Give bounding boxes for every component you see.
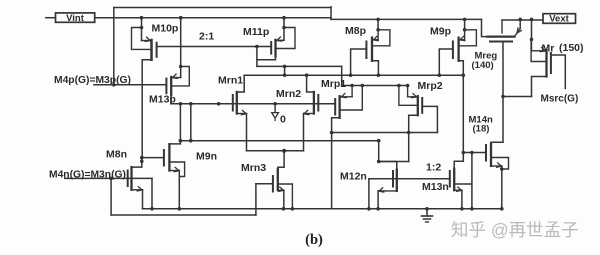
svg-text:(150): (150) xyxy=(559,42,584,54)
wire M4n gate wire through M8n to bulk drop xyxy=(65,177,152,179)
wire L2 Mrp drain line y132.5 xyxy=(332,132,438,134)
svg-text:(18): (18) xyxy=(473,124,490,135)
wire L1 end down to M12n drain xyxy=(378,141,380,162)
transistor M12n xyxy=(396,170,398,191)
wire vertical A x463.3 (y75 down to M13n drain) xyxy=(462,75,464,161)
wire right end of top rails x331 xyxy=(330,7,332,20)
wire Vint rail y18 (box to x331) xyxy=(95,17,331,19)
wire M11p drain jog to y66 wire xyxy=(257,65,342,67)
wire M8p gate down to y75 xyxy=(351,49,367,75)
svg-text:M9p: M9p xyxy=(430,26,451,38)
wire bias drop x111.1 xyxy=(110,178,112,215)
wire M9n drain jog from x180.4 xyxy=(169,141,180,144)
svg-text:Mrp1: Mrp1 xyxy=(321,78,346,90)
wire M8p source riser xyxy=(377,19,379,29)
svg-text:Mrn1: Mrn1 xyxy=(218,75,243,87)
wire M10p source riser xyxy=(141,18,143,41)
wire Mrn1 source xyxy=(237,113,247,115)
svg-text:2:1: 2:1 xyxy=(199,31,214,43)
wire Mrp2 bulk tie xyxy=(399,86,418,106)
wire drain node line y75 (Mrn1 to M14n gate) xyxy=(244,74,463,76)
wire Mrp1 source arrow xyxy=(351,86,353,97)
svg-text:Vint: Vint xyxy=(66,13,85,24)
transistor M9n xyxy=(168,144,170,170)
wire M14n drain to Msrc vertical xyxy=(491,142,503,144)
transistor M11p xyxy=(274,40,276,57)
wire Mrn3 source xyxy=(278,189,284,191)
wire M10p drain xyxy=(142,60,151,162)
wire M10p source arrow xyxy=(142,40,151,42)
svg-text:Vext: Vext xyxy=(549,14,569,25)
wire M13n bulk tie to B xyxy=(454,183,472,185)
transistor Mrn3 xyxy=(277,169,279,190)
wire bias line y215 to Mrn3 gate xyxy=(111,214,256,216)
wire M14n source xyxy=(491,165,502,167)
wire Mrn2 source xyxy=(304,113,314,115)
transistor Mr xyxy=(545,50,547,77)
wire M12n/M13n shared gate line xyxy=(369,178,450,180)
wire Mrn3 gate lead xyxy=(256,183,273,185)
svg-text:0: 0 xyxy=(280,114,286,126)
wire M13p source arrow xyxy=(172,77,181,79)
svg-text:(140): (140) xyxy=(472,60,494,71)
wire Mr source riser xyxy=(531,19,533,39)
wire Msrc node horizontal to Mr drain line xyxy=(503,96,532,98)
wire M9p gate down to y75 xyxy=(439,49,453,75)
wire tail down to Mrn3 drain xyxy=(278,151,284,169)
wire 2:1 mirror gate line xyxy=(157,46,272,48)
wire M12n source xyxy=(378,190,397,192)
svg-text:Msrc(G): Msrc(G) xyxy=(541,94,579,105)
wire M8p source arrow xyxy=(377,30,379,40)
transistor M13p xyxy=(170,77,172,95)
wire Mr source arrow xyxy=(531,39,533,50)
wire top bypass rail y7 xyxy=(114,7,331,9)
transistor M8p xyxy=(371,38,373,61)
wire Mrp2 drain jog left down to M12n leg xyxy=(409,115,418,161)
wire vertical B x471.9 to rail xyxy=(471,153,473,209)
wire gate line drop to rail x368.9 xyxy=(368,179,370,209)
wire M9n source xyxy=(169,170,179,172)
svg-text:Mrn2: Mrn2 xyxy=(276,88,301,100)
transistor Mrp2 xyxy=(417,96,419,115)
transistor Mrn1 xyxy=(236,92,238,114)
wire M13p source riser from rail xyxy=(180,18,182,78)
Vext wire xyxy=(502,19,543,21)
wire M8p drain down to y75 xyxy=(372,61,378,75)
wire M8n drain jog up xyxy=(132,161,142,167)
node 0 reference symbol xyxy=(274,104,276,113)
svg-text:Mrn3: Mrn3 xyxy=(241,162,266,174)
wire vertical x180.4 (to M9n drain and L1) xyxy=(179,104,181,141)
wire M8n source xyxy=(132,189,143,191)
transistor M8n xyxy=(130,167,132,190)
wire M9p drain join A xyxy=(459,61,464,75)
Vext box xyxy=(543,14,576,24)
svg-text:Mrp2: Mrp2 xyxy=(418,80,443,92)
svg-text:M9n: M9n xyxy=(196,151,217,163)
wire L2 downleg horizontal to M12n xyxy=(379,161,409,163)
wire M11p source arrow xyxy=(276,39,284,41)
wire M9p source riser xyxy=(464,19,466,29)
wire M11p source riser xyxy=(283,18,285,41)
wire Mr bulk tie xyxy=(531,39,546,61)
svg-text:M11p: M11p xyxy=(243,26,269,38)
wire y66 wire down to Mrp source line xyxy=(341,66,343,85)
wire Mrp2 source arrow xyxy=(407,86,409,97)
wire M11p bulk tie xyxy=(276,28,296,49)
wire L1 line y140.7 xyxy=(180,140,379,142)
wire M14n bulk tie xyxy=(491,158,509,170)
svg-text:1:2: 1:2 xyxy=(426,162,441,174)
transistor M14n xyxy=(490,144,492,166)
wire M10p bulk tie xyxy=(132,28,152,50)
wire ground rail xyxy=(143,208,502,210)
wire M9n bulk tie xyxy=(169,162,184,177)
wire tail line y150.8 xyxy=(247,150,304,152)
wire Mreg right lead with arrow xyxy=(519,19,521,28)
wire gate line y104 (M13p drain to Mrn pair and Mrp1 gate) xyxy=(171,103,335,105)
ground symbol xyxy=(426,209,428,216)
wire M11p drain / diode tie xyxy=(257,56,276,59)
wire Mrp2 gate to L2 end xyxy=(422,106,437,132)
svg-text:知乎 @再世孟子: 知乎 @再世孟子 xyxy=(451,220,579,240)
svg-text:M12n: M12n xyxy=(340,171,367,183)
transistor M10p xyxy=(150,40,152,60)
wire Mrn1 drain to y75 line xyxy=(237,75,244,92)
wire A jog to M13n drain xyxy=(454,161,463,169)
wire M13p bulk tie xyxy=(171,67,189,86)
wire M13p drain down xyxy=(170,95,172,104)
wire M9p bulk tie xyxy=(459,30,477,46)
wire Mr drain to Msrc node xyxy=(532,77,547,97)
wire M4p gate wire to M13p gate xyxy=(94,84,166,86)
svg-text:Mr: Mr xyxy=(542,43,555,55)
wire Mrn2 drain to y75 line xyxy=(307,75,314,92)
wire M8n bulk drop to rail xyxy=(151,178,153,208)
svg-text:M8n: M8n xyxy=(106,149,127,161)
wire Mreg left lead from rail xyxy=(482,19,488,36)
wire M13n source xyxy=(454,189,462,191)
wire Mrn3 bulk tie to rail xyxy=(278,184,293,209)
wire Mreg bulk tie xyxy=(501,20,503,33)
svg-text:(b): (b) xyxy=(305,232,323,248)
transistor Mrp1 xyxy=(338,96,340,118)
transistor M13n xyxy=(453,169,455,190)
svg-text:M10p: M10p xyxy=(152,23,179,35)
Vint box xyxy=(56,13,95,22)
transistor Mreg horizontal xyxy=(488,35,515,37)
wire M14n gate lead xyxy=(463,152,486,154)
wire vertical x190.8 (to L1) xyxy=(190,104,192,141)
svg-text:M13n: M13n xyxy=(422,181,449,193)
wire Mrp pair source line y85.5 xyxy=(342,85,408,87)
wire M8p bulk tie xyxy=(372,30,390,46)
transistor Mrn2 xyxy=(313,92,315,114)
wire left vertical x113.8 (Vint node down to M4p gate wire) xyxy=(113,8,115,86)
wire M12n drain jog xyxy=(379,162,397,170)
svg-text:M8p: M8p xyxy=(345,25,366,37)
wire Mrp1 bulk tie xyxy=(340,86,363,111)
wire Mr gate to Msrc label xyxy=(551,55,565,89)
wire rail y19.4 (x331 to Mreg) xyxy=(331,18,482,20)
wire Mrp1 drain down to ground rail xyxy=(332,118,340,209)
wire Mreg gate / Msrc node vertical xyxy=(502,42,504,142)
wire Vint input stub xyxy=(46,17,56,19)
transistor M9p xyxy=(457,38,459,61)
wire M9n gate lead xyxy=(142,157,164,159)
wire M9p source arrow xyxy=(464,30,466,40)
